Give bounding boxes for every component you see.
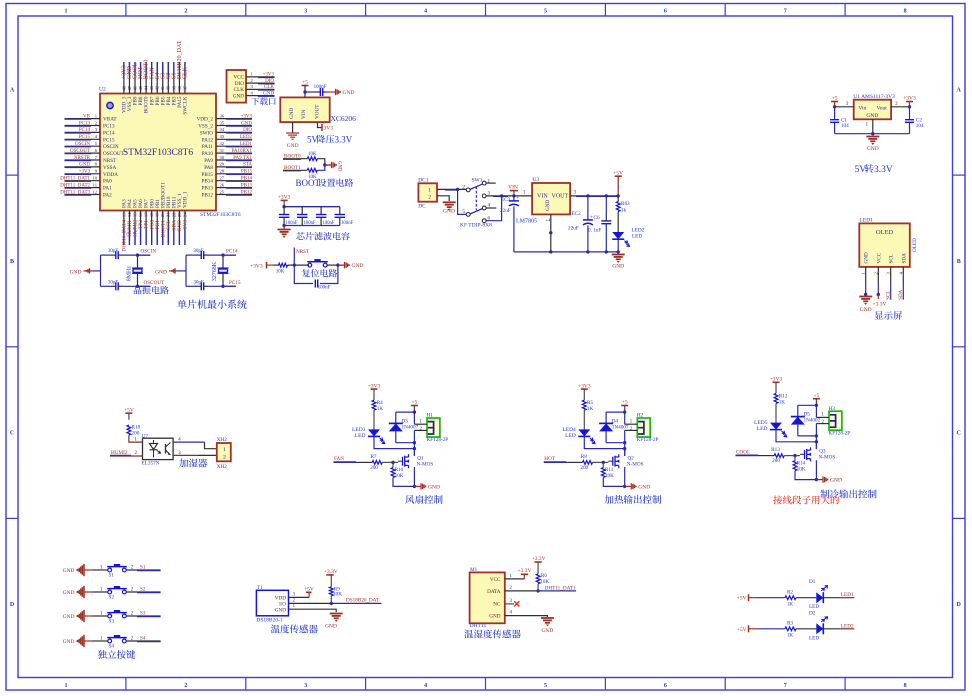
wire stub top [223, 254, 236, 256]
node rail 2 [586, 250, 589, 253]
switch S3 button [108, 614, 112, 618]
svg-text:GND: GND [443, 209, 455, 215]
node HOT led join [623, 447, 626, 450]
svg-text:OLED: OLED [876, 229, 894, 236]
svg-text:PA2: PA2 [103, 193, 112, 199]
svg-text:OSCOUT: OSCOUT [144, 280, 166, 286]
ground XC6206 [286, 132, 299, 134]
ground HOT [630, 483, 632, 489]
svg-text:LED: LED [632, 234, 642, 240]
svg-text:3: 3 [886, 272, 891, 275]
svg-text:200: 200 [132, 431, 140, 437]
svg-text:EC3: EC3 [501, 197, 511, 203]
svg-text:200: 200 [370, 465, 378, 471]
ground power rail [612, 254, 625, 256]
wire MCU pin 12 PA2 [65, 194, 101, 196]
wire MCU pin 9 VDDA [65, 173, 101, 175]
svg-text:5: 5 [544, 8, 547, 14]
svg-text:2: 2 [251, 78, 254, 83]
power 3V3 port [321, 124, 323, 131]
no-connect X mark [514, 601, 519, 606]
wire MCU pin 46 PB9 [134, 62, 136, 94]
diode D5 1N4002 [797, 405, 799, 416]
switch reset button [308, 263, 312, 267]
label fan control title [405, 495, 414, 504]
wire Q3 source to rail [815, 460, 817, 479]
power +3V3 HOT [581, 388, 588, 390]
svg-text:38: 38 [177, 85, 182, 90]
svg-text:U1 AMS1117-3V3: U1 AMS1117-3V3 [853, 94, 895, 100]
svg-text:VDD: VDD [275, 595, 286, 601]
svg-text:5V: 5V [855, 165, 867, 175]
svg-text:S4: S4 [109, 644, 115, 650]
resistor R12 1K [774, 393, 778, 403]
svg-text:3.3V: 3.3V [335, 135, 353, 145]
wire stub bottom [138, 285, 151, 287]
svg-text:6: 6 [664, 683, 667, 689]
power +3V3 filter [281, 199, 288, 201]
wire MCU pin 43 PB7 [151, 62, 153, 94]
wire R18 to U7 pin1 [129, 435, 143, 442]
LED LED5 [770, 423, 782, 430]
svg-text:22uF: 22uF [500, 208, 511, 214]
label humidifier title [179, 459, 188, 468]
svg-text:3: 3 [95, 127, 98, 132]
node crystal top [221, 253, 224, 256]
svg-text:10K: 10K [308, 152, 317, 157]
wire MCU pin 8 VSSA [65, 166, 101, 168]
svg-text:100nF: 100nF [314, 85, 327, 90]
diode D4 1N4007 [605, 412, 607, 423]
svg-text:+5V: +5V [613, 170, 623, 176]
svg-text:LED: LED [809, 635, 819, 641]
node VIN [512, 194, 515, 197]
svg-text:+3V3: +3V3 [368, 383, 381, 389]
resistor R63 1k [617, 196, 619, 202]
svg-text:5V: 5V [307, 135, 319, 145]
wire OLED vcc [877, 283, 879, 295]
svg-text:30: 30 [220, 155, 225, 160]
svg-text:S1: S1 [109, 573, 115, 579]
power +5V humidifier [125, 412, 132, 414]
svg-text:NC: NC [493, 602, 501, 608]
svg-text:DC: DC [418, 204, 426, 210]
label terminal note red [773, 496, 782, 505]
svg-text:GND: GND [70, 269, 82, 275]
wire MCU pin 13 PA3 [123, 211, 125, 246]
svg-text:2: 2 [630, 427, 633, 432]
svg-text:SDA: SDA [899, 289, 904, 299]
svg-text:30pF: 30pF [108, 249, 119, 254]
connector H3 KF128-2P [829, 411, 842, 430]
connector DC1 jack [418, 183, 437, 201]
svg-text:35: 35 [220, 120, 225, 125]
svg-text:DS18B20_DAT: DS18B20_DAT [346, 598, 380, 604]
svg-text:10K: 10K [797, 466, 806, 472]
svg-text:XH2: XH2 [217, 437, 227, 443]
svg-text:S3: S3 [140, 611, 146, 617]
svg-text:5: 5 [95, 141, 98, 146]
svg-text:DATA: DATA [487, 589, 501, 595]
svg-text:GND: GND [287, 143, 299, 149]
svg-text:+5: +5 [832, 96, 838, 102]
node crystal top [136, 253, 139, 256]
wire OLED gnd [865, 283, 867, 295]
svg-text:VOUT: VOUT [315, 104, 321, 119]
wire sw4 open [486, 207, 496, 209]
wire DC1 pin2 to gnd [437, 196, 449, 201]
wire BOOT1 to R [283, 169, 307, 171]
svg-text:1N4007: 1N4007 [612, 425, 629, 431]
wire MCU pin 16 PA6 [140, 211, 142, 246]
svg-text:VSSA: VSSA [103, 165, 117, 171]
svg-text:BOOT: BOOT [296, 178, 321, 188]
svg-text:3: 3 [293, 592, 296, 597]
svg-text:S3: S3 [109, 619, 115, 625]
svg-text:PB13: PB13 [201, 186, 213, 192]
wire D2 to net [823, 628, 840, 630]
wire Vout to +3V3 [891, 106, 909, 108]
svg-text:1: 1 [64, 683, 67, 689]
wire filter top rail [284, 206, 340, 208]
svg-text:U3: U3 [532, 177, 539, 183]
svg-text:DC1: DC1 [418, 177, 429, 183]
resistor R14 10K [794, 456, 796, 461]
svg-text:S2: S2 [109, 595, 115, 601]
svg-text:3: 3 [846, 102, 849, 107]
svg-text:VIN: VIN [301, 110, 307, 119]
wire R7 to gate [382, 461, 398, 463]
svg-text:DS18B20-1: DS18B20-1 [256, 618, 283, 624]
svg-text:DHT11: DHT11 [470, 623, 487, 629]
node rail 3 [605, 250, 608, 253]
svg-text:GND: GND [541, 628, 553, 634]
svg-text:LM7805: LM7805 [516, 219, 537, 225]
svg-text:100nF: 100nF [318, 286, 331, 291]
svg-text:36: 36 [220, 113, 225, 118]
resistor R11 10K [602, 462, 604, 467]
wire T1 io pin2 [289, 602, 332, 604]
svg-text:VIN: VIN [537, 194, 548, 200]
svg-text:STM32F103C8T6: STM32F103C8T6 [123, 148, 193, 158]
svg-text:10K: 10K [540, 579, 549, 585]
wire H1 pin1 [414, 423, 427, 425]
svg-text:SDA: SDA [901, 253, 907, 264]
svg-text:9: 9 [95, 169, 98, 174]
svg-text:14: 14 [127, 212, 132, 217]
svg-text:43: 43 [149, 85, 154, 90]
svg-text:PA11: PA11 [202, 144, 214, 150]
wire Q1 source to rail [413, 467, 415, 486]
wire stub top [138, 254, 151, 256]
svg-text:30pF: 30pF [108, 280, 119, 285]
wire H2 pin1 [625, 423, 638, 425]
svg-text:28: 28 [220, 169, 225, 174]
crystal 32768K [222, 255, 224, 286]
wire crystal left rail [185, 255, 187, 286]
wire Q1 drain [413, 449, 415, 456]
svg-text:100nF: 100nF [285, 221, 298, 226]
wire MCU pin 34 SWIO [216, 131, 252, 133]
node FAN gnd rail [413, 485, 416, 488]
svg-text:1: 1 [510, 574, 513, 579]
svg-text:PB14: PB14 [201, 179, 213, 185]
label cool control title [820, 490, 829, 499]
svg-text:OLED: OLED [912, 238, 918, 252]
svg-text:GND: GND [866, 113, 878, 119]
wire gnd to rail [177, 270, 187, 272]
svg-text:16: 16 [138, 212, 143, 217]
svg-text:VCC: VCC [876, 252, 882, 263]
wire H3 pin1 [816, 416, 829, 418]
ground right of 100nF [335, 89, 337, 95]
regulator U1 AMS1117-3V3 [854, 100, 891, 120]
wire MCU pin 40 PB4 [167, 62, 169, 94]
wire MCU pin 2 PC13 [65, 125, 101, 127]
svg-text:100nF: 100nF [322, 221, 335, 226]
svg-text:S1: S1 [140, 565, 146, 571]
svg-text:3: 3 [304, 683, 307, 689]
node ams gnd [871, 132, 874, 135]
wire R11 to rail [603, 478, 624, 487]
svg-text:3: 3 [574, 190, 577, 196]
svg-text:2: 2 [184, 8, 187, 14]
net label DHT11_DAT1 [538, 590, 576, 592]
power +5 HOT [621, 405, 628, 407]
wire M1 nc pin3 [505, 603, 514, 605]
connector download port [227, 70, 247, 103]
svg-text:+3V3: +3V3 [278, 195, 291, 201]
node crystal bottom [221, 285, 224, 288]
wire R5 to LED4 [583, 410, 585, 429]
svg-text:PB15: PB15 [201, 172, 213, 178]
connector H1 KF128-2P [427, 418, 440, 437]
wire R to node [288, 264, 310, 266]
svg-text:A: A [10, 87, 15, 93]
svg-text:M1: M1 [470, 567, 478, 573]
svg-text:KF128-2P: KF128-2P [427, 437, 449, 443]
ground COOL [822, 476, 824, 482]
wire sw3 to VIN [486, 195, 513, 197]
wire R to gnd node [317, 159, 331, 165]
wire MCU pin 37 SWCLK [184, 62, 186, 94]
wire MCU pin 22 PB11 [173, 211, 175, 246]
svg-text:GND: GND [489, 614, 500, 620]
svg-text:NRST: NRST [103, 158, 117, 164]
wire MCU pin 24 VDD_1 [184, 211, 186, 246]
node rail 4 [617, 250, 620, 253]
wire LED4 down to node [584, 436, 624, 448]
LED D2 [816, 623, 823, 634]
svg-text:10K: 10K [395, 473, 404, 479]
wire MCU pin 20 PB2BOOT1 [162, 211, 164, 246]
wire MCU pin 21 PB10 [167, 211, 169, 246]
node reset gnd junction [336, 263, 339, 266]
svg-text:PA8: PA8 [204, 165, 213, 171]
svg-text:1k: 1k [621, 208, 627, 214]
svg-text:11: 11 [93, 182, 98, 187]
node FAN gate [391, 461, 394, 464]
svg-text:D1: D1 [809, 579, 816, 585]
node COOL +5 [815, 404, 818, 407]
label display title [874, 311, 883, 319]
svg-text:7: 7 [784, 8, 787, 14]
svg-text:3: 3 [510, 599, 513, 604]
svg-text:+5V: +5V [737, 596, 747, 602]
svg-text:4: 4 [424, 8, 427, 14]
wire stub bottom [223, 285, 236, 287]
wire +5V to R2 [749, 597, 759, 599]
svg-text:3.3V: 3.3V [874, 165, 893, 175]
wire to cap 100nF [305, 91, 314, 93]
ground ams [866, 136, 879, 138]
label buttons title [98, 650, 107, 659]
svg-text:22uF: 22uF [568, 226, 579, 232]
node DC1 junction [456, 188, 459, 191]
resistor R6 10K [536, 574, 540, 584]
svg-text:GND: GND [63, 639, 75, 645]
svg-text:VCC: VCC [490, 577, 501, 583]
svg-text:1K: 1K [779, 399, 786, 405]
wire button to gnd [328, 264, 344, 266]
svg-text:1: 1 [293, 604, 296, 609]
node vout b [605, 194, 608, 197]
svg-text:SWCLK: SWCLK [183, 96, 189, 114]
svg-text:21: 21 [166, 212, 171, 217]
wire bottom branch [186, 285, 197, 287]
svg-text:PC13: PC13 [103, 124, 115, 130]
node HOT gnd rail [623, 485, 626, 488]
svg-text:32: 32 [220, 141, 225, 146]
wire S4 to net [127, 640, 161, 642]
wire MCU pin 14 PA4 [128, 211, 130, 246]
wire VOUT rail [570, 195, 618, 197]
wire gnd to S1 [85, 569, 93, 571]
svg-text:A: A [957, 87, 962, 93]
svg-text:+3.3V: +3.3V [518, 568, 532, 574]
svg-text:R3: R3 [787, 621, 793, 627]
ground dht11 [541, 617, 554, 619]
svg-text:2: 2 [462, 184, 465, 190]
node crystal bottom [136, 285, 139, 288]
svg-text:S2: S2 [140, 587, 146, 593]
svg-text:R7: R7 [370, 454, 376, 460]
svg-text:PC15: PC15 [103, 137, 115, 143]
wire Q2 source to rail [624, 467, 626, 486]
svg-text:1: 1 [428, 188, 431, 194]
svg-text:4: 4 [898, 272, 903, 275]
capacitor 100nF filter 1 [283, 207, 285, 215]
svg-text:OSCIN: OSCIN [141, 249, 157, 255]
wire M1 gnd pin4 [505, 616, 548, 617]
svg-text:NRST: NRST [296, 249, 310, 255]
wire MCU pin 10 PA0 [65, 180, 101, 182]
wire gnd to S2 [85, 591, 93, 593]
svg-text:4: 4 [424, 683, 427, 689]
svg-text:+5V: +5V [737, 627, 747, 633]
wire MCU pin 33 PA12 [216, 138, 252, 140]
LED LED4 [578, 429, 590, 436]
svg-text:D: D [957, 602, 962, 608]
power +3V3 FAN [371, 388, 378, 390]
wire COOL main vertical [815, 405, 817, 417]
ground BOOT [331, 162, 333, 168]
svg-text:8: 8 [95, 162, 98, 167]
svg-text:1: 1 [523, 190, 526, 196]
resistor R2 1K [785, 596, 796, 600]
node FAN led join [413, 447, 416, 450]
svg-text:OSCIN: OSCIN [103, 144, 119, 150]
wire VIN to U3 [514, 195, 532, 197]
wire H3 pin2 [816, 423, 829, 425]
wire M1 vcc pin1 [505, 578, 525, 580]
svg-text:GND: GND [63, 614, 75, 620]
svg-text:C6: C6 [594, 215, 600, 221]
svg-text:+3V3: +3V3 [263, 73, 275, 78]
svg-text:GND: GND [289, 108, 295, 119]
svg-text:GND: GND [343, 90, 355, 96]
svg-text:2: 2 [822, 420, 825, 425]
wire cap to GND [324, 91, 335, 93]
node ds18b20 dat [330, 602, 333, 605]
svg-text:S4: S4 [140, 636, 146, 642]
svg-text:R8: R8 [581, 454, 587, 460]
sensor T1 DS18B20 body [256, 590, 288, 616]
node vout a [586, 194, 589, 197]
svg-text:2: 2 [293, 598, 296, 603]
wire HUMI2 to U7 pin2 [110, 455, 143, 457]
crystal 8MHz [137, 255, 139, 286]
node HOT diode join [623, 441, 626, 444]
svg-text:VDD_1: VDD_1 [183, 191, 189, 208]
svg-text:1: 1 [866, 123, 869, 128]
wire MCU pin 44 BOOT0 [145, 62, 147, 94]
svg-text:GND: GND [830, 478, 842, 484]
resistor 10K reset [279, 263, 288, 267]
wire bottom branch [101, 285, 112, 287]
svg-text:31: 31 [220, 148, 225, 153]
wire MCU pin 42 PB6 [156, 62, 158, 94]
svg-text:EL357N: EL357N [142, 461, 160, 467]
node FAN +5 [413, 410, 416, 413]
svg-text:3V3: 3V3 [324, 126, 334, 132]
node ams left [833, 105, 836, 108]
wire LED3 down to node [374, 436, 414, 448]
svg-text:32768K: 32768K [212, 261, 218, 281]
svg-text:PA9: PA9 [204, 158, 213, 164]
node HOT gate [602, 461, 605, 464]
wire download pin 3 CLK [246, 88, 275, 90]
svg-text:1: 1 [64, 8, 67, 14]
svg-text:4: 4 [251, 90, 254, 95]
svg-text:D: D [10, 602, 15, 608]
wire BOOT0 to R [283, 158, 307, 160]
wire power bottom rail [514, 251, 618, 253]
regulator U3 LM7805 [532, 183, 570, 214]
resistor R5 1K [582, 400, 586, 410]
wire MCU pin 48 VDD_3 [123, 62, 125, 94]
ground reset [344, 262, 346, 268]
connector LED1 OLED display [859, 223, 910, 267]
svg-text:26: 26 [220, 182, 225, 187]
svg-text:10K: 10K [333, 592, 342, 598]
wire download pin 2 DIO [246, 82, 275, 84]
svg-text:10K: 10K [276, 270, 285, 275]
wire crystal left rail [100, 255, 102, 286]
svg-text:VDD_2: VDD_2 [197, 117, 214, 123]
svg-text:GND: GND [263, 91, 274, 96]
svg-text:1: 1 [861, 272, 866, 275]
